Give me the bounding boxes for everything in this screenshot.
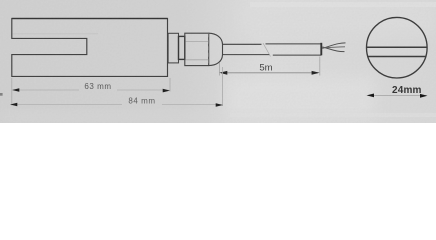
nut facet line lower [185,59,208,61]
wire end upper [322,43,345,49]
cable top line [223,43,322,45]
wire end lower [322,47,344,52]
end-view slot chord lower [368,56,426,58]
scan lighter bottom-middle band [225,76,375,123]
5m dimension line [221,72,318,74]
end-view circle [367,17,428,78]
5m extension line left [219,63,221,76]
scan streaks [250,2,436,7]
end-view slot chord upper [367,46,427,48]
dome boundary dashed line [208,33,210,65]
84mm right arrow [216,103,223,107]
63mm label [84,82,111,91]
84mm extension line right [222,67,224,106]
5m extension line right [319,57,321,76]
84mm left arrow [10,103,17,107]
gland bridge [179,36,185,59]
body top edge (darker) [12,18,168,20]
63mm left arrow [12,88,19,92]
24mm left arrow [367,94,375,98]
63mm extension line right [169,78,171,92]
24mm dimension line [368,94,426,96]
24mm label [392,85,422,96]
24mm right arrow [420,94,428,98]
scan lighter bottom band [0,112,436,123]
scan grain [0,0,1,1]
gland neck [168,33,178,63]
5m right arrow [312,71,320,75]
cable bottom line [223,54,322,57]
scan lighter top-right area [240,0,436,34]
scan artifact left edge [0,93,3,96]
84mm dimension line [12,104,222,106]
63mm right arrow [163,89,170,93]
body faint inner line [13,33,99,35]
cable end cap [320,43,322,56]
63mm dimension line [14,89,169,91]
5m left arrow [219,71,227,75]
84mm label [128,97,155,106]
5m label [259,62,272,73]
dome cap [209,33,223,65]
nut facet line upper [185,41,208,43]
gland nut [185,33,209,65]
wire end middle [322,46,345,49]
63mm extension line left [11,78,13,106]
cable break slash [263,43,271,57]
fork body outline [12,19,168,77]
scan background [0,0,436,123]
